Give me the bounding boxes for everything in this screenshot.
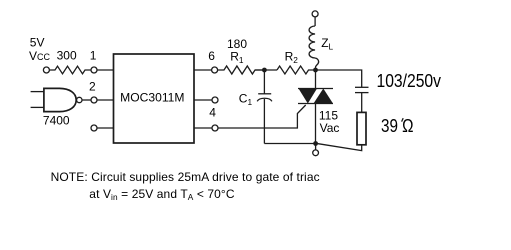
terminal gate pin	[212, 125, 218, 131]
svg-text:39 Ω: 39 Ω	[381, 116, 414, 136]
wire coil to node	[315, 58, 319, 70]
terminal 115 Vac	[313, 150, 319, 156]
svg-text:Vac: Vac	[320, 121, 340, 135]
capacitor C1	[257, 70, 272, 144]
value 39 ohm tick mark	[402, 118, 404, 121]
junction node bottom	[313, 141, 318, 146]
svg-text:NOTE: Circuit supplies 25mA dr: NOTE: Circuit supplies 25mA drive to gat…	[51, 170, 320, 184]
terminal pin 3	[91, 125, 97, 131]
svg-text:4: 4	[209, 106, 216, 120]
wire U1 pin6	[194, 69, 212, 71]
wire U1 gate pin	[194, 127, 212, 129]
wire R1 to R2	[255, 69, 277, 71]
terminal pin 6	[212, 67, 218, 73]
nand gate 7400 U2	[31, 88, 82, 111]
wire node to snubber	[316, 70, 362, 87]
svg-text:MOC3011M: MOC3011M	[120, 91, 184, 105]
inductor ZL	[309, 26, 315, 58]
wire C1 bottom to node	[264, 143, 315, 145]
wire gate run	[218, 105, 306, 128]
wire resistor to node diagonal	[316, 143, 362, 150]
wire node to terminal	[315, 144, 317, 150]
svg-text:103/250v: 103/250v	[377, 71, 442, 91]
wire terminal to coil	[314, 17, 316, 26]
optocoupler U1 MOC3011M	[114, 54, 195, 143]
junction node main	[313, 68, 318, 73]
junction node C1	[262, 68, 267, 73]
terminal ZL top	[312, 11, 318, 17]
wire pin1 to U1	[97, 69, 114, 71]
terminal pin 1	[91, 67, 97, 73]
wire triac to bottom node	[315, 104, 317, 144]
resistor 39 ohm	[357, 112, 366, 144]
wire pin2 to U1	[97, 99, 114, 101]
svg-text:6: 6	[208, 49, 215, 63]
terminal Vcc input	[43, 67, 49, 73]
resistor R1	[217, 66, 264, 74]
capacitor 103/250v	[355, 87, 369, 92]
svg-text:5V: 5V	[30, 35, 45, 49]
svg-text:2: 2	[89, 80, 96, 94]
wire pin3 to U1	[97, 127, 114, 129]
pin 4 stub	[194, 99, 212, 101]
terminal pin 4	[212, 97, 218, 103]
wire cap to resistor	[361, 93, 363, 113]
terminal pin 2	[91, 97, 97, 103]
wire node to triac	[315, 70, 317, 89]
wire gate to pin2 terminal	[82, 99, 91, 101]
svg-text:VCC: VCC	[29, 49, 51, 63]
resistor 300	[49, 66, 91, 74]
svg-text:300: 300	[57, 48, 77, 62]
svg-text:1: 1	[90, 48, 97, 62]
svg-text:7400: 7400	[43, 114, 70, 128]
resistor R2	[277, 66, 316, 74]
triac Q1	[298, 89, 333, 104]
